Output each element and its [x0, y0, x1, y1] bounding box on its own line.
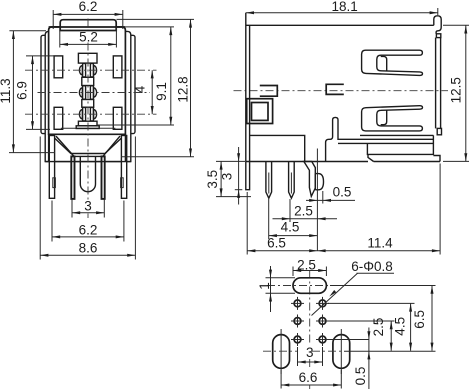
svg-text:0.5: 0.5 [353, 367, 368, 386]
svg-text:18.1: 18.1 [331, 0, 357, 14]
svg-text:3: 3 [220, 173, 235, 181]
svg-text:6-Φ0.8: 6-Φ0.8 [351, 259, 393, 274]
svg-text:3: 3 [84, 198, 92, 213]
svg-text:2.5: 2.5 [294, 203, 313, 218]
svg-text:1: 1 [257, 282, 272, 290]
svg-text:12.5: 12.5 [448, 77, 463, 103]
svg-text:4.5: 4.5 [392, 317, 407, 336]
svg-text:11.4: 11.4 [367, 235, 393, 250]
svg-text:4.5: 4.5 [281, 219, 300, 234]
svg-text:6.5: 6.5 [412, 310, 427, 329]
svg-text:6.9: 6.9 [15, 81, 30, 100]
svg-text:11.3: 11.3 [0, 78, 13, 103]
svg-text:6.5: 6.5 [267, 235, 286, 250]
svg-text:0.5: 0.5 [333, 184, 352, 199]
svg-text:9.1: 9.1 [154, 82, 169, 101]
svg-text:2.5: 2.5 [371, 318, 386, 337]
svg-text:3.5: 3.5 [205, 170, 220, 189]
svg-text:12.8: 12.8 [175, 76, 190, 102]
svg-text:6.2: 6.2 [79, 222, 98, 237]
svg-text:3: 3 [306, 345, 314, 360]
svg-text:5.2: 5.2 [79, 30, 98, 45]
svg-text:6.6: 6.6 [299, 370, 318, 385]
svg-text:6.2: 6.2 [79, 0, 98, 14]
svg-text:8.6: 8.6 [79, 240, 98, 255]
svg-text:2.5: 2.5 [297, 257, 316, 272]
